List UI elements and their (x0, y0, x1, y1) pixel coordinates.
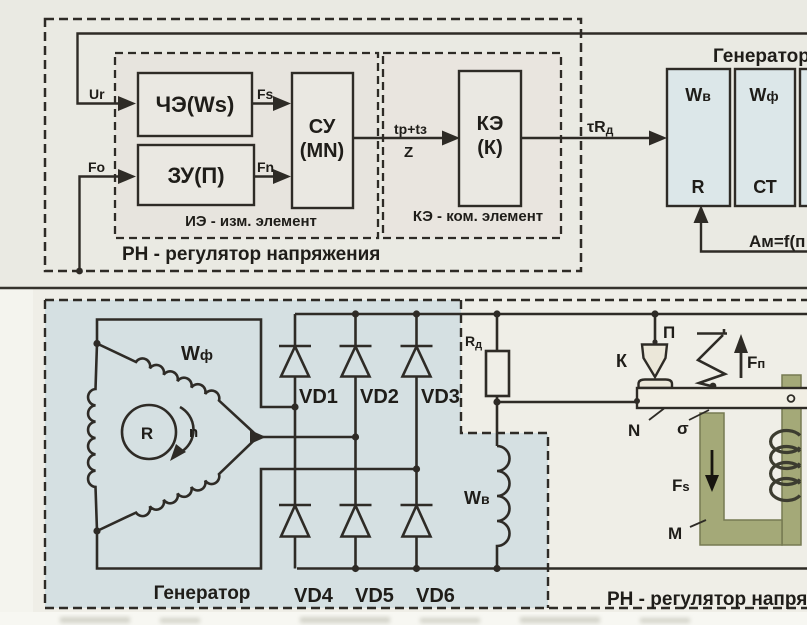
svg-text:σ: σ (677, 419, 689, 438)
wire phase C from delta bottom vertex to VD3 column (97, 469, 417, 569)
svg-text:Генератор: Генератор (154, 583, 251, 604)
node Wv bottom (493, 565, 500, 572)
G_TOPSECTION (0, 19, 807, 288)
svg-text:СУ: СУ (309, 116, 336, 138)
svg-text:Fo: Fo (88, 159, 105, 175)
diode column VD3/VD6 (415, 314, 418, 569)
node VD5 bottom (352, 565, 359, 572)
svg-text:VD2: VD2 (360, 386, 399, 408)
delta winding Wf (scalloped triangle) (88, 344, 97, 532)
svg-text:Wв: Wв (464, 488, 490, 508)
node P top (651, 310, 658, 317)
electromagnet core M (U shape) (700, 413, 782, 545)
arrow Fs down on left leg (711, 450, 714, 478)
svg-text:РН - регулятор напряжения: РН - регулятор напряжения (122, 244, 380, 265)
wire Am feedback (701, 221, 807, 252)
dashed border: bottom boxes top edge (45, 299, 807, 301)
node delta bottom vertex (93, 527, 100, 534)
node spring on armature (710, 383, 717, 390)
moving contact hump on armature (639, 380, 673, 389)
svg-text:Fs: Fs (672, 476, 690, 495)
G_BOTTOMBAND (60, 617, 690, 623)
bottom bus (297, 567, 807, 570)
wire KE to generator (521, 137, 651, 139)
generator column Wf (735, 69, 795, 206)
dashed box RN regulator (45, 19, 581, 271)
wire Fo input (80, 177, 120, 272)
svg-text:Wф: Wф (749, 85, 778, 105)
block ChE(Ws) (138, 73, 252, 136)
diode VD1 (279, 346, 311, 377)
block KE(K) (459, 71, 521, 206)
svg-text:СТ: СТ (753, 177, 777, 197)
pivot on bar (788, 395, 795, 402)
contact K (fixed, funnel) (642, 345, 667, 378)
node VD3 top (413, 310, 420, 317)
armature N bar (637, 388, 807, 408)
wire Fn arrow (254, 175, 274, 177)
diode column VD2/VD5 (354, 314, 357, 569)
svg-text:П: П (663, 323, 675, 342)
svg-text:Fп: Fп (747, 353, 765, 372)
dashed box interior fill KE (383, 53, 561, 238)
label sigma with pointer (689, 410, 709, 420)
svg-text:М: М (668, 524, 682, 543)
resistor Rd body (486, 351, 509, 396)
svg-text:R: R (692, 177, 705, 197)
svg-text:Ur: Ur (89, 86, 105, 102)
resistor Rd lead top (496, 314, 499, 351)
diode VD6 (401, 505, 433, 537)
svg-text:Wф: Wф (181, 343, 213, 365)
coil on right leg (771, 431, 800, 501)
node Fo on RN border (76, 268, 83, 275)
svg-text:VD5: VD5 (355, 585, 394, 607)
inductor Wv (497, 446, 509, 569)
label M with pointer (690, 520, 706, 527)
dashed border: bottom edge (45, 607, 807, 609)
arrowhead Ur into ChE (118, 96, 136, 111)
node phase C (413, 465, 420, 472)
rotor R circle (122, 405, 176, 459)
wire to armature N (497, 401, 636, 404)
spring top bar (697, 329, 727, 334)
svg-text:КЭ: КЭ (477, 113, 504, 135)
diode VD5 (340, 505, 372, 537)
wire Fs arrow (252, 102, 274, 104)
G_RELAY (616, 314, 807, 545)
svg-text:Ам=f(п: Ам=f(п (749, 232, 805, 251)
dashed border: generator/RN step (461, 300, 548, 608)
svg-text:ЗУ(П): ЗУ(П) (167, 163, 224, 188)
arrowhead Am up into generator (694, 205, 709, 223)
node Rd / armature wire (493, 398, 500, 405)
svg-text:VD4: VD4 (294, 585, 334, 607)
arrow Fp up (740, 350, 743, 378)
svg-text:VD1: VD1 (299, 386, 338, 408)
svg-text:tp+tз: tp+tз (394, 121, 427, 137)
diode VD2 (340, 346, 372, 377)
svg-text:Fn: Fn (257, 159, 274, 175)
svg-text:Fs: Fs (257, 86, 274, 102)
diode column VD1/VD4 (294, 314, 297, 569)
dashed border: left edge (44, 300, 46, 608)
svg-text:Wв: Wв (685, 85, 711, 105)
svg-text:Генератор: Генератор (713, 46, 807, 67)
wire phase A from delta top vertex to VD1 column (97, 320, 295, 408)
node phase A (291, 403, 298, 410)
node delta top vertex (93, 340, 100, 347)
node wire to bar (634, 398, 640, 404)
dashed box IE izm element (115, 53, 378, 238)
separator line (0, 287, 807, 290)
svg-text:N: N (628, 421, 640, 440)
svg-text:РН - регулятор напряж: РН - регулятор напряж (607, 589, 807, 610)
diode VD4 (279, 505, 311, 537)
svg-text:К: К (616, 351, 628, 371)
wire P contact from top bus (654, 314, 657, 344)
dashed box interior fill IE (115, 53, 378, 238)
svg-text:VD3: VD3 (421, 386, 460, 408)
top bus (295, 313, 807, 316)
svg-text:ЧЭ(Ws): ЧЭ(Ws) (156, 92, 235, 117)
block SU(MN) (292, 73, 353, 208)
svg-text:R: R (141, 424, 153, 443)
generator column 3 (cut off) (800, 69, 807, 206)
arrowhead Fo into ZU (118, 169, 136, 184)
spring zigzag (698, 335, 725, 386)
arrowhead at delta right vertex (250, 430, 266, 444)
svg-text:(К): (К) (477, 137, 503, 159)
rotation arrow n (180, 407, 193, 452)
node Rd top (493, 310, 500, 317)
generator column Wv (667, 69, 730, 206)
diode VD3 (401, 346, 433, 377)
svg-text:n: n (189, 424, 198, 441)
generator blue region fill (45, 300, 548, 608)
wire SU to KE (353, 137, 443, 139)
dashed box KE kom element (383, 53, 561, 238)
label N with pointer (649, 409, 664, 421)
block ZU(P) (138, 145, 254, 205)
wire feedback top Ur (78, 34, 807, 104)
svg-text:Z: Z (404, 144, 413, 161)
node VD2 top (352, 310, 359, 317)
G_BOTTOMSECTION (45, 300, 807, 610)
svg-text:ИЭ - изм. элемент: ИЭ - изм. элемент (185, 213, 317, 230)
svg-text:VD6: VD6 (416, 585, 455, 607)
node VD6 bottom (413, 565, 420, 572)
svg-text:(MN): (MN) (300, 140, 344, 162)
node phase B (352, 433, 359, 440)
resistor Rd lead bottom (496, 396, 499, 446)
svg-text:КЭ - ком. элемент: КЭ - ком. элемент (413, 208, 543, 225)
wire phase B from delta right vertex to VD2 column (259, 436, 356, 439)
core M right leg (above bar part) (782, 375, 801, 545)
